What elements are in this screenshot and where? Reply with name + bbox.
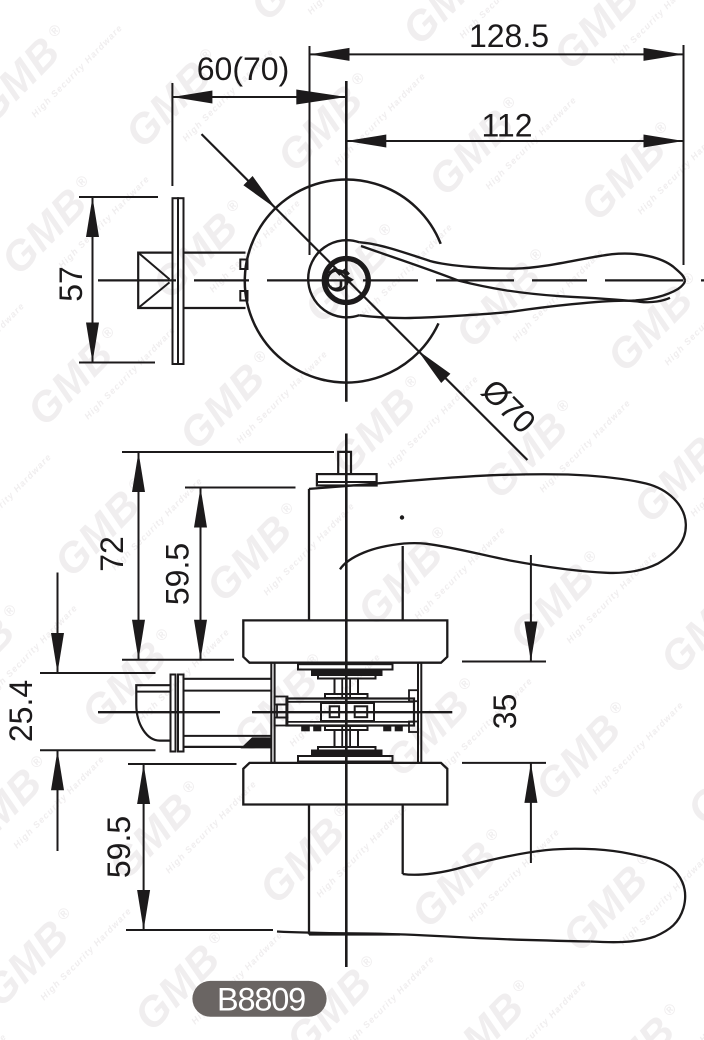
svg-text:GMB ®: GMB ® [526, 692, 642, 809]
dimension 72 [122, 451, 334, 453]
svg-text:112: 112 [481, 108, 532, 144]
svg-text:57: 57 [53, 266, 89, 302]
svg-text:GMB ®: GMB ® [348, 517, 464, 634]
svg-text:GMB ®: GMB ® [696, 0, 704, 102]
svg-text:59.5: 59.5 [160, 543, 196, 605]
dimension 59.5 lower [128, 763, 237, 765]
svg-text:GMB ®: GMB ® [402, 819, 518, 936]
dimension 35 [462, 661, 546, 663]
svg-text:GMB ®: GMB ® [571, 112, 687, 229]
dimension 57 [79, 196, 158, 198]
spindle tube upper [334, 679, 336, 695]
spring retainer tabs [302, 726, 309, 731]
spindle stem [338, 452, 351, 474]
svg-text:GMB ®: GMB ® [446, 239, 562, 356]
tiny mark on lever [400, 515, 404, 519]
lever handle front view [308, 240, 359, 317]
mounting tabs on rose edge [240, 260, 247, 270]
latch bolt front view [138, 253, 172, 308]
svg-text:GMB ®: GMB ® [429, 970, 545, 1040]
dimension 25.4 [40, 672, 156, 674]
lower rose section [243, 763, 447, 805]
upper rose section [243, 620, 447, 662]
horizontal centerline front view [98, 279, 704, 281]
spindle cap [317, 474, 377, 485]
svg-text:GMB ®: GMB ® [375, 668, 491, 785]
retractor housing [287, 699, 415, 726]
chassis outer walls [270, 663, 272, 763]
latch case section [184, 678, 272, 680]
svg-text:GMB ®: GMB ® [419, 87, 535, 204]
svg-text:35: 35 [487, 694, 523, 730]
svg-text:GMB ®: GMB ® [544, 0, 660, 78]
svg-text:GMB ®: GMB ® [241, 0, 357, 29]
cylinder ring [324, 259, 368, 303]
svg-text:25.4: 25.4 [3, 680, 39, 742]
svg-text:High Security Hardware: High Security Hardware [305, 0, 400, 16]
faceplate section [171, 675, 176, 752]
svg-text:High Security Hardware: High Security Hardware [0, 301, 27, 398]
spindle tube lower [325, 726, 368, 730]
dimension 60(70) [171, 83, 173, 186]
dimension 112 [346, 140, 683, 142]
svg-text:High Security Hardware: High Security Hardware [0, 1032, 9, 1040]
svg-text:GMB ®: GMB ® [170, 341, 286, 458]
diameter leader O70 [202, 134, 277, 209]
horizontal centerline section view [98, 711, 452, 713]
upper lever section [308, 489, 310, 621]
svg-text:72: 72 [94, 536, 130, 572]
latch case cut fill [241, 737, 272, 748]
key bit profile [329, 269, 350, 275]
lower lever section [308, 805, 310, 935]
svg-text:GMB ®: GMB ® [18, 317, 134, 434]
svg-text:GMB ®: GMB ® [295, 214, 411, 331]
svg-text:GMB ®: GMB ® [580, 994, 696, 1040]
chassis plate stack bottom [318, 747, 376, 751]
dimension 128.5 [309, 46, 311, 255]
svg-text:GMB ®: GMB ® [500, 541, 616, 658]
hub brackets left [275, 697, 288, 705]
keyway circle [328, 270, 348, 290]
latch case front view [184, 252, 246, 254]
chassis plate stack top [298, 664, 393, 669]
svg-text:GMB ®: GMB ® [197, 493, 313, 610]
svg-text:B8809: B8809 [217, 982, 305, 1018]
svg-text:GMB ®: GMB ® [651, 565, 704, 682]
faceplate front view [173, 198, 179, 364]
dimension 59.5 upper [185, 487, 296, 489]
svg-text:60(70): 60(70) [197, 51, 290, 87]
svg-text:59.5: 59.5 [101, 816, 137, 878]
latch bolt section [136, 685, 170, 740]
vertical centerline [345, 81, 348, 402]
rose circle O70 front view [245, 180, 441, 383]
badge B8809 [192, 981, 326, 1017]
key tip arrow [345, 274, 355, 286]
svg-text:High Security Hardware: High Security Hardware [0, 452, 54, 549]
hub brackets right [409, 690, 418, 701]
svg-text:128.5: 128.5 [469, 18, 549, 54]
svg-text:GMB ®: GMB ® [678, 716, 704, 833]
svg-text:GMB ®: GMB ® [90, 0, 206, 5]
